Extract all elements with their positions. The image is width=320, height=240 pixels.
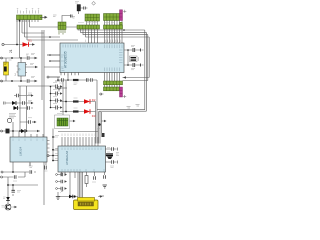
terminal row131 <box>1 130 3 132</box>
wire strip E to F <box>105 85 120 88</box>
wire diode D bottom <box>7 201 9 204</box>
capacitor C21 top <box>81 7 88 10</box>
U4 right text <box>55 136 59 149</box>
header block A (green 2x5) <box>85 14 100 21</box>
terminal row177 <box>1 176 3 178</box>
diode D9 (red) <box>23 42 29 46</box>
circle comp Q1 <box>7 118 11 122</box>
wire row y81 <box>1 80 35 82</box>
terminal T1 <box>2 43 4 45</box>
wire row y108 <box>13 107 33 109</box>
junction dot row44 <box>16 44 18 46</box>
junction dots row131 <box>12 130 14 132</box>
LED LD2 <box>79 109 92 114</box>
net arrow row67 <box>35 66 38 69</box>
terminal far left of U3 <box>47 155 49 157</box>
U3 pin numbers top <box>62 134 95 137</box>
junction dots LED rows <box>65 101 67 103</box>
wire U2 left pins <box>44 55 60 81</box>
cap x13 y192 <box>12 190 15 192</box>
strip B labels <box>78 22 97 24</box>
wire bundle x95-101 down to U3 <box>96 110 102 144</box>
junction dot bundle <box>98 123 101 126</box>
row y122 cap+arrow <box>28 118 37 124</box>
LED row1 y102.5: resistor <box>73 100 79 102</box>
R7 label <box>74 83 78 84</box>
wire U3 right pins <box>106 149 117 162</box>
cap on y80 left <box>62 78 64 81</box>
U3 right small labels <box>107 148 110 153</box>
connector J1 top-left <box>17 15 43 22</box>
svg-text:ATMEGA8: ATMEGA8 <box>65 151 69 165</box>
svg-text:D2: D2 <box>92 98 96 102</box>
small dark comp above U3 <box>102 133 105 137</box>
U4 right pin stubs <box>47 141 50 157</box>
U2 inside pin names top <box>63 45 122 49</box>
wire row VCC y44.5 <box>4 44 32 46</box>
U3 left pin dots <box>52 155 54 157</box>
electrolytic row131 <box>6 129 10 134</box>
vertical bus x44 <box>43 30 45 205</box>
Y1 label <box>9 59 12 61</box>
net arrow right of L1 <box>70 120 76 122</box>
transistor Q2 (circle) <box>2 204 18 210</box>
crystal circuit: cap C15 <box>124 63 144 70</box>
wire U3 left pins <box>49 129 58 161</box>
diode D8 vertical <box>3 197 10 201</box>
net label row67 <box>30 64 34 65</box>
cap label <box>17 191 21 193</box>
terminal T3 <box>1 80 3 82</box>
svg-text:AT90S8535: AT90S8535 <box>64 51 68 68</box>
U2 inside left pin names <box>61 55 64 77</box>
cap right y149 <box>112 147 118 150</box>
cap row172 <box>30 170 32 173</box>
electrolytic C20 top <box>75 2 81 15</box>
wire row y103 <box>5 102 27 104</box>
wire row y95.5 <box>14 95 27 97</box>
wire U3 top long <box>58 131 98 133</box>
resistor R7 on y80 <box>73 79 79 81</box>
wire U5 legs <box>21 58 35 81</box>
junction dot usb <box>74 195 76 197</box>
strip D labels <box>105 22 116 24</box>
wire LED cathodes to bus <box>92 102 96 112</box>
LED row2 resistor label <box>74 107 78 109</box>
green cell under magenta <box>120 22 123 25</box>
wire cap ladder rail x50.5 <box>18 86 56 108</box>
net label row58 <box>31 54 35 55</box>
row y103 label+arrow <box>27 101 34 105</box>
arrow right of usb <box>98 196 100 198</box>
cap label y80 left <box>59 82 63 84</box>
header block C (green 2x5 + magenta) <box>104 14 120 21</box>
cap row177 <box>14 175 16 178</box>
vertical bus x42 <box>41 30 43 100</box>
cap below U3 x94.5 <box>92 176 96 182</box>
wire row y122 <box>20 121 34 123</box>
wire left col bottom <box>8 177 38 197</box>
wire left column verticals x20 x26 <box>20 86 27 131</box>
wire diode to usb <box>58 192 78 197</box>
block A bottom pins <box>87 21 98 25</box>
caps on y80 right <box>87 78 93 81</box>
wire row y172 <box>3 171 36 173</box>
terminal row172 <box>1 171 3 173</box>
ground x104.5 <box>103 185 107 188</box>
cap right y162 <box>110 160 117 167</box>
wire y80 row under U2 <box>57 75 97 81</box>
cap below U4 pin30 <box>29 163 33 167</box>
wire U2 bottom pins <box>61 73 79 76</box>
wire row y58 <box>1 57 35 59</box>
wire U2 bottom right pins to strip E <box>105 73 120 82</box>
buzzer Y1 (yellow) <box>4 62 9 75</box>
L1 label <box>57 113 62 115</box>
junction dots row81 <box>11 80 13 82</box>
small arrow top-left of usb <box>61 190 64 193</box>
cap ladder row3 y100.5 <box>50 97 63 103</box>
terminal T2 <box>1 57 3 59</box>
cap ladder row2 y93.5 <box>50 90 63 96</box>
net arrow row131 <box>37 130 40 132</box>
svg-text:D1: D1 <box>28 39 32 43</box>
wire x97 down to U3 <box>96 80 98 144</box>
net arrow right of J1 <box>40 16 48 19</box>
K1 label <box>53 15 57 17</box>
logo diamond <box>92 1 96 5</box>
U3 inside pin names top <box>62 148 101 151</box>
wire U2 top pins from strip B <box>89 29 98 43</box>
LED row1 resistor label <box>74 97 78 99</box>
wire J1 pin drops <box>17 20 30 59</box>
wire nested fanout to right bus <box>78 29 149 37</box>
wire row y177 <box>3 172 26 177</box>
IC U5 (small, left) <box>17 63 28 77</box>
U3 inside pin names bottom <box>62 169 104 172</box>
IC U4 (bottom-left) <box>10 137 47 162</box>
cap y103 <box>23 101 25 104</box>
net arrow row44 <box>32 43 35 46</box>
junction dots row58 <box>11 57 13 59</box>
junction dots x53 <box>52 136 54 138</box>
terminal left of strip F <box>100 93 102 95</box>
wire y88 stub <box>55 87 67 89</box>
J1 pin labels (tiny text) <box>17 8 39 13</box>
LED LD1 <box>79 99 92 104</box>
U2 inside pin names bottom <box>62 68 120 72</box>
diode D7 row131 <box>21 129 25 133</box>
wire usb feed pair <box>78 172 83 200</box>
wire usb right <box>99 195 104 197</box>
crystal circuit: cap C14 <box>124 45 144 52</box>
diode D5 y103 <box>12 101 16 105</box>
LED row2 y112.5: resistor <box>73 110 79 112</box>
diode D6 y108 <box>14 106 18 110</box>
U2 left junction dots <box>49 36 51 38</box>
U2 inside pin names right <box>119 50 123 63</box>
row y95.5: cap <box>17 94 19 97</box>
wire IC2 top rail <box>13 131 43 137</box>
IC U2 (main MCU) <box>60 43 124 73</box>
IC U3 (bottom-middle) <box>58 146 106 172</box>
U4 pin numbers top <box>13 139 43 142</box>
strip D (green row right) <box>104 25 123 29</box>
wire U3 bottom pins <box>62 172 105 196</box>
diode D10 before usb <box>69 195 73 199</box>
terminal U2 left <box>47 76 49 78</box>
strip F (below strip E) <box>104 87 120 91</box>
labels near bundle <box>97 129 100 131</box>
cap below U4 pin46 <box>44 166 48 172</box>
net arrow row58 <box>35 57 38 60</box>
usb connector J5 (yellow) <box>74 198 99 210</box>
wire LED rows feed <box>60 80 73 112</box>
junction dot row172 <box>12 171 14 173</box>
row y103: left mark <box>4 102 6 105</box>
magenta cap block C <box>120 10 123 21</box>
wire U2 top pins from block C <box>105 21 123 44</box>
net arrow mid right <box>101 120 107 122</box>
svg-text:LM324: LM324 <box>19 146 23 156</box>
wire right bus bottom L <box>97 110 146 112</box>
U2 top pin number smudges <box>86 40 121 43</box>
wire U3 top pins <box>62 137 98 146</box>
cap ladder row4 y107.5 <box>50 104 63 110</box>
junction dot row185 <box>7 184 9 186</box>
svg-text:21: 21 <box>9 49 13 53</box>
text block left <box>9 114 16 119</box>
svg-text:D3: D3 <box>92 114 96 118</box>
junction dots y80 <box>57 79 59 81</box>
cap label row58 <box>26 54 29 55</box>
inductor L1 (green) <box>55 115 70 129</box>
crystal X1 <box>127 49 138 66</box>
capacitor top K1 <box>71 15 73 18</box>
strip E (below U2) <box>104 81 123 85</box>
resistor R9 below U3 <box>85 176 88 184</box>
cap label row177 <box>13 180 17 182</box>
wire row y131 <box>2 122 41 131</box>
label near strip B <box>73 17 76 19</box>
bus glyphs on bottom L <box>127 105 140 109</box>
plus mark right of magenta <box>123 95 126 98</box>
cap ladder row1 y86.5 <box>50 83 63 89</box>
terminals left col under U3 <box>56 173 67 176</box>
magenta block bottom connector <box>120 87 123 97</box>
wire J1 fanout right <box>22 27 78 40</box>
net arrow row81 <box>35 80 38 83</box>
relay K1 (small green, top) <box>58 16 70 35</box>
cap below U3 x104.5 <box>104 175 106 178</box>
wire green comp feed <box>62 80 64 115</box>
electrolytic C30 right <box>106 153 119 160</box>
wire magenta connector right <box>123 78 150 81</box>
wire IC2 bottom pins <box>13 162 46 172</box>
ground mark y88 <box>57 89 61 92</box>
plus mark top right <box>123 10 126 13</box>
strip B (green row) <box>77 25 100 29</box>
ground below U3 <box>56 197 60 200</box>
wire buzzer legs <box>5 58 7 81</box>
capacitor C row81 <box>27 79 29 82</box>
capacitor C row58 <box>27 56 29 59</box>
row y95.5 label+arrow <box>27 93 34 97</box>
cap y108 <box>28 106 30 109</box>
junction dot J1 <box>19 20 21 22</box>
wire right bus verticals <box>145 30 149 111</box>
net label row81 <box>31 77 35 78</box>
arrowhead on wire y77.5 <box>123 76 126 78</box>
